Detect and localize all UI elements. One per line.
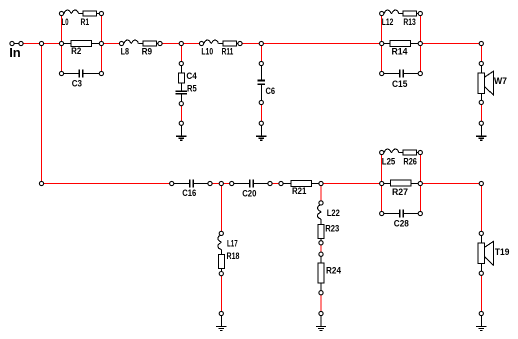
wire corner down to W7 [480, 44, 482, 64]
svg-text:R26: R26 [403, 156, 417, 167]
node C4 tap [179, 41, 183, 45]
node R24 bottom [319, 291, 323, 295]
node R14 right [418, 41, 422, 45]
wire W7 to ground node [480, 102, 482, 123]
node R27 right [418, 181, 422, 185]
svg-text:C4: C4 [186, 71, 197, 82]
svg-text:R24: R24 [326, 265, 342, 276]
svg-text:C20: C20 [242, 188, 256, 199]
node T19 ground [479, 311, 483, 315]
node C15 left [380, 71, 384, 75]
node L17 ground [219, 311, 223, 315]
resistor R14 [382, 43, 390, 45]
node corner W7 [479, 41, 483, 45]
wire input to junction [21, 43, 42, 45]
capacitor C4 [180, 64, 182, 74]
svg-text:C16: C16 [182, 188, 196, 199]
svg-text:L10: L10 [201, 46, 213, 57]
node C6 tap [259, 41, 263, 45]
capacitor C20 [232, 183, 250, 185]
node C4 top [179, 61, 183, 65]
wire R11 to right block via node C6 tap [240, 43, 382, 45]
node L25 left [380, 150, 384, 154]
node L8 left [119, 41, 123, 45]
resistor R26 [403, 150, 417, 155]
ground of W7 [480, 123, 482, 136]
node R21 left [279, 181, 283, 185]
node L17 tap [219, 181, 223, 185]
node R11 right [238, 41, 242, 45]
svg-text:L12: L12 [382, 17, 394, 28]
wire left block right vertical [100, 14, 102, 74]
svg-text:L8: L8 [121, 46, 129, 57]
wire right bottom block right vertical [419, 153, 421, 214]
node input port [10, 41, 14, 45]
node C16 left [170, 181, 174, 185]
node input [19, 41, 23, 45]
wire R9 to L10 via node [160, 43, 202, 45]
wire R24 to bottom ground node [320, 293, 322, 314]
node C6 top [259, 61, 263, 65]
resistor R5 [180, 83, 182, 91]
resistor R23 [320, 219, 322, 225]
node C28 left [380, 211, 384, 215]
node R9 right [158, 41, 162, 45]
svg-text:R11: R11 [222, 46, 234, 57]
wire C4 branch to ground node [180, 104, 182, 124]
capacitor C28 [382, 213, 400, 215]
wire left block left vertical [61, 14, 63, 74]
inductor L12 [384, 10, 398, 13]
node C6 ground [259, 121, 263, 125]
inductor L8 [124, 40, 138, 43]
node R18 bottom [219, 272, 223, 276]
wire bottom main left segment [42, 183, 172, 185]
svg-text:R9: R9 [142, 46, 153, 57]
resistor R18 [220, 250, 222, 255]
resistor R24 [320, 254, 322, 263]
node C3 left [59, 71, 63, 75]
node R21 right junction [319, 181, 323, 185]
ground of C6 branch [260, 123, 262, 136]
svg-text:C15: C15 [392, 79, 408, 90]
wire corner down to T19 [480, 184, 482, 234]
node R24 ground [319, 311, 323, 315]
node T19 top [479, 231, 483, 235]
wire L17 branch tap [220, 184, 222, 234]
node C15 right [418, 71, 422, 75]
svg-text:W7: W7 [494, 76, 507, 87]
node C16 right [208, 181, 212, 185]
node corner bottom [39, 181, 43, 185]
wire L22 branch tap [320, 184, 322, 203]
inductor L25 [384, 149, 398, 152]
svg-text:In: In [9, 45, 21, 60]
wire right top block left vertical [381, 14, 383, 74]
node W7 bottom [479, 100, 483, 104]
wire R18 to bottom ground node [220, 274, 222, 314]
svg-text:T19: T19 [495, 247, 510, 258]
wire R21 junction to right bottom block [321, 183, 382, 185]
wire C4 branch tap [180, 44, 182, 64]
wire C16 to C20 via L17 tap [210, 183, 232, 185]
input port link [12, 43, 21, 45]
ground of R24 branch [320, 314, 322, 327]
node R24 top [319, 252, 323, 256]
node R1 right [99, 11, 103, 15]
node L12 left [380, 11, 384, 15]
svg-text:L25: L25 [382, 156, 396, 167]
wire left block to L8 [101, 43, 121, 45]
speaker W7 [480, 64, 482, 74]
node C4 ground [179, 121, 183, 125]
node R2 left [59, 41, 63, 45]
svg-text:R14: R14 [392, 46, 409, 57]
wire right top block right vertical [419, 14, 421, 74]
svg-text:C6: C6 [266, 86, 276, 97]
node T19 bottom [479, 271, 483, 275]
node R23 bottom [319, 241, 323, 245]
wire right bottom block left vertical [381, 153, 383, 214]
capacitor C3 [62, 73, 80, 75]
node C28 right [418, 211, 422, 215]
svg-text:L17: L17 [227, 238, 238, 249]
inductor L22 [320, 203, 322, 205]
wire right bottom block to corner above T19 [420, 183, 481, 185]
svg-text:R1: R1 [81, 17, 90, 28]
resistor R2 [62, 43, 72, 45]
wire T19 to bottom ground node [480, 273, 482, 313]
node C20 left [230, 181, 234, 185]
ground of C4 R5 branch [180, 123, 182, 136]
svg-text:L22: L22 [327, 208, 340, 219]
svg-text:C28: C28 [394, 219, 409, 230]
svg-text:R2: R2 [71, 46, 81, 57]
wire C20 to R21 [270, 183, 281, 185]
resistor R1 [83, 11, 96, 16]
resistor R11 [223, 41, 236, 46]
node corner T19 [479, 181, 483, 185]
resistor R21 [281, 183, 291, 185]
node C20 right [268, 181, 272, 185]
svg-text:R5: R5 [187, 84, 197, 95]
node main junction A [39, 41, 43, 45]
wire vertical main feed down to bottom network [41, 44, 43, 184]
node L17 top [219, 231, 223, 235]
node L10 left [199, 41, 203, 45]
capacitor C6 [260, 64, 262, 80]
wire junction to left block [42, 43, 62, 45]
svg-text:C3: C3 [72, 79, 82, 90]
inductor L10 [204, 40, 218, 43]
svg-text:L0: L0 [62, 17, 69, 28]
node C3 right [99, 71, 103, 75]
inductor L0 [64, 10, 78, 13]
inductor L17 [220, 233, 222, 235]
node W7 ground [479, 121, 483, 125]
resistor R13 [403, 11, 417, 16]
svg-text:R23: R23 [325, 223, 339, 234]
capacitor C15 [382, 73, 400, 75]
node L22 top [319, 201, 323, 205]
node R14 left [380, 41, 384, 45]
node C6 bottom [259, 100, 263, 104]
svg-text:R18: R18 [227, 251, 240, 262]
wire right block to corner above W7 [420, 43, 481, 45]
ground of T19 [480, 314, 482, 327]
svg-text:R27: R27 [392, 187, 408, 198]
wire R23 to R24 link [320, 243, 322, 254]
node R5 bottom [179, 102, 183, 106]
svg-text:R21: R21 [292, 186, 307, 197]
ground of L17 R18 branch [220, 314, 222, 327]
node R2 right [99, 41, 103, 45]
node W7 top [479, 61, 483, 65]
capacitor C16 [172, 183, 190, 185]
wire C6 branch to ground node [260, 103, 262, 124]
speaker T19 [480, 233, 482, 243]
node R26 right [418, 150, 422, 154]
resistor R9 [143, 41, 156, 46]
svg-text:R13: R13 [403, 17, 415, 28]
node R27 left [380, 181, 384, 185]
node L0 left [59, 11, 63, 15]
wire C6 branch tap [260, 44, 262, 64]
node R13 right [418, 11, 422, 15]
resistor R27 [382, 183, 391, 185]
